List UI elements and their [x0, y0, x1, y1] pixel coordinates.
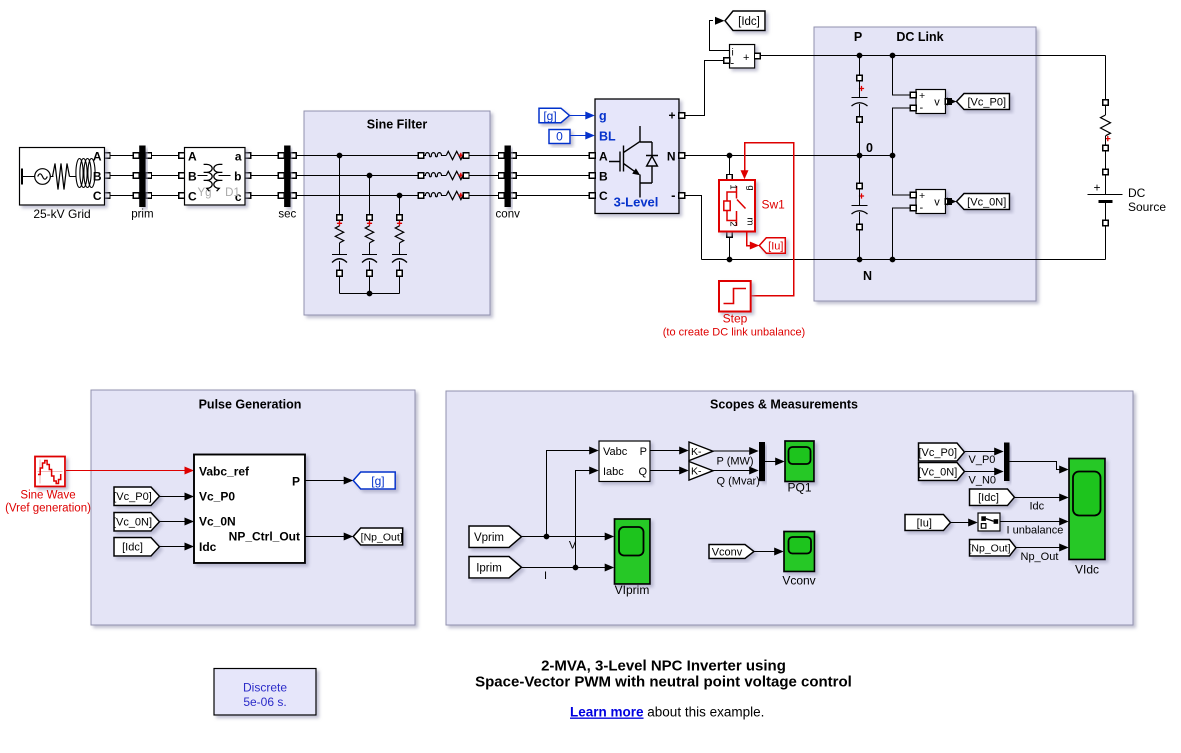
- svg-text:V_P0: V_P0: [969, 454, 996, 466]
- svg-text:B: B: [599, 170, 608, 184]
- svg-text:+: +: [743, 52, 749, 64]
- svg-text:C: C: [599, 189, 608, 203]
- svg-text:5e-06 s.: 5e-06 s.: [243, 695, 286, 709]
- svg-text:B: B: [188, 170, 197, 184]
- svg-text:Iprim: Iprim: [476, 562, 502, 574]
- svg-text:Yg: Yg: [197, 187, 211, 199]
- svg-text:-: -: [731, 58, 735, 70]
- svg-text:NP_Ctrl_Out: NP_Ctrl_Out: [229, 530, 300, 544]
- svg-text:N: N: [667, 150, 676, 164]
- svg-text:v: v: [934, 97, 940, 109]
- svg-text:I: I: [544, 570, 547, 582]
- svg-text:(to create DC link unbalance): (to create DC link unbalance): [663, 327, 805, 339]
- svg-text:VIprim: VIprim: [615, 583, 650, 597]
- svg-text:DC: DC: [1128, 186, 1146, 200]
- svg-text:v: v: [934, 197, 940, 209]
- svg-text:A: A: [188, 150, 197, 164]
- svg-text:+: +: [919, 190, 925, 202]
- svg-text:V: V: [569, 540, 577, 552]
- svg-text:prim: prim: [131, 209, 153, 221]
- svg-text:Vabc: Vabc: [603, 446, 628, 458]
- svg-text:Np_Out: Np_Out: [1021, 551, 1059, 563]
- svg-text:B: B: [93, 170, 102, 184]
- svg-text:+: +: [668, 109, 675, 123]
- svg-text:[Idc]: [Idc]: [738, 16, 760, 28]
- svg-text:b: b: [234, 170, 241, 184]
- svg-text:Discrete: Discrete: [243, 681, 287, 695]
- svg-text:P: P: [292, 475, 300, 489]
- svg-text:Vprim: Vprim: [474, 532, 504, 544]
- svg-text:BL: BL: [599, 130, 616, 144]
- svg-text:[Vc_P0]: [Vc_P0]: [918, 447, 957, 459]
- svg-text:Sine Wave: Sine Wave: [20, 490, 75, 502]
- svg-text:Sine Filter: Sine Filter: [367, 118, 428, 132]
- svg-text:Vconv: Vconv: [782, 574, 815, 588]
- svg-text:m: m: [745, 218, 756, 226]
- svg-text:1: 1: [728, 184, 739, 189]
- svg-text:Space-Vector PWM with neutral: Space-Vector PWM with neutral point volt…: [475, 674, 852, 691]
- svg-text:Vconv: Vconv: [712, 546, 743, 558]
- svg-text:g: g: [599, 109, 607, 123]
- svg-text:g: g: [745, 185, 756, 190]
- svg-text:P: P: [854, 30, 862, 44]
- svg-text:sec: sec: [278, 209, 296, 221]
- svg-text:[g]: [g]: [371, 474, 384, 488]
- svg-text:Idc: Idc: [1030, 501, 1045, 513]
- svg-text:[g]: [g]: [543, 109, 556, 123]
- svg-text:Q: Q: [638, 466, 647, 478]
- svg-text:-: -: [671, 188, 675, 203]
- svg-text:[Vc_P0]: [Vc_P0]: [967, 96, 1006, 108]
- svg-text:0: 0: [866, 141, 873, 155]
- svg-text:Step: Step: [723, 312, 748, 326]
- svg-text:Learn more about this example.: Learn more about this example.: [570, 705, 764, 720]
- svg-text:Pulse Generation: Pulse Generation: [199, 398, 302, 412]
- svg-text:Sw1: Sw1: [762, 198, 786, 212]
- svg-text:P: P: [640, 446, 647, 458]
- svg-text:3-Level: 3-Level: [614, 195, 659, 210]
- svg-text:[Iu]: [Iu]: [768, 240, 783, 252]
- svg-text:[Iu]: [Iu]: [917, 517, 932, 529]
- svg-text:N: N: [863, 269, 872, 283]
- svg-text:Vc_0N: Vc_0N: [199, 515, 236, 529]
- svg-text:[Vc_0N]: [Vc_0N]: [113, 517, 152, 529]
- svg-text:0: 0: [556, 130, 563, 144]
- svg-text:K-: K-: [691, 446, 702, 458]
- svg-text:D1: D1: [225, 187, 240, 199]
- svg-text:[Vc_0N]: [Vc_0N]: [918, 466, 957, 478]
- svg-text:[Vc_P0]: [Vc_P0]: [113, 491, 152, 503]
- svg-text:[Np_Out]: [Np_Out]: [361, 531, 403, 543]
- svg-text:C: C: [188, 190, 197, 204]
- svg-text:(Vref generation): (Vref generation): [5, 503, 91, 515]
- svg-text:Idc: Idc: [199, 540, 217, 554]
- svg-text:[Idc]: [Idc]: [122, 542, 143, 554]
- svg-text:conv: conv: [496, 209, 521, 221]
- svg-text:-: -: [920, 102, 924, 114]
- svg-text:-: -: [920, 202, 924, 214]
- svg-text:Vabc_ref: Vabc_ref: [199, 465, 250, 479]
- svg-text:[Vc_0N]: [Vc_0N]: [967, 196, 1006, 208]
- svg-text:2: 2: [728, 221, 739, 226]
- svg-text:DC Link: DC Link: [896, 30, 943, 44]
- svg-text:I unbalance: I unbalance: [1007, 525, 1064, 537]
- svg-text:PQ1: PQ1: [787, 481, 811, 495]
- svg-text:VIdc: VIdc: [1075, 563, 1099, 577]
- svg-text:Scopes & Measurements: Scopes & Measurements: [710, 398, 858, 412]
- svg-text:K-: K-: [691, 466, 702, 478]
- svg-text:A: A: [93, 150, 102, 164]
- svg-text:a: a: [235, 150, 242, 164]
- svg-text:Source: Source: [1128, 200, 1166, 214]
- svg-text:2-MVA, 3-Level NPC Inverter us: 2-MVA, 3-Level NPC Inverter using: [541, 658, 786, 675]
- svg-text:Vc_P0: Vc_P0: [199, 490, 235, 504]
- svg-text:+: +: [1093, 181, 1100, 195]
- svg-text:P (MW): P (MW): [717, 456, 754, 468]
- svg-text:Iabc: Iabc: [603, 466, 624, 478]
- svg-text:+: +: [919, 90, 925, 102]
- svg-text:Q (Mvar): Q (Mvar): [717, 476, 760, 488]
- svg-text:A: A: [599, 150, 608, 164]
- svg-text:25-kV Grid: 25-kV Grid: [33, 207, 90, 221]
- svg-text:C: C: [93, 189, 102, 203]
- svg-text:V_N0: V_N0: [969, 475, 997, 487]
- svg-text:[Idc]: [Idc]: [978, 492, 999, 504]
- svg-text:[Np_Out]: [Np_Out]: [968, 543, 1010, 555]
